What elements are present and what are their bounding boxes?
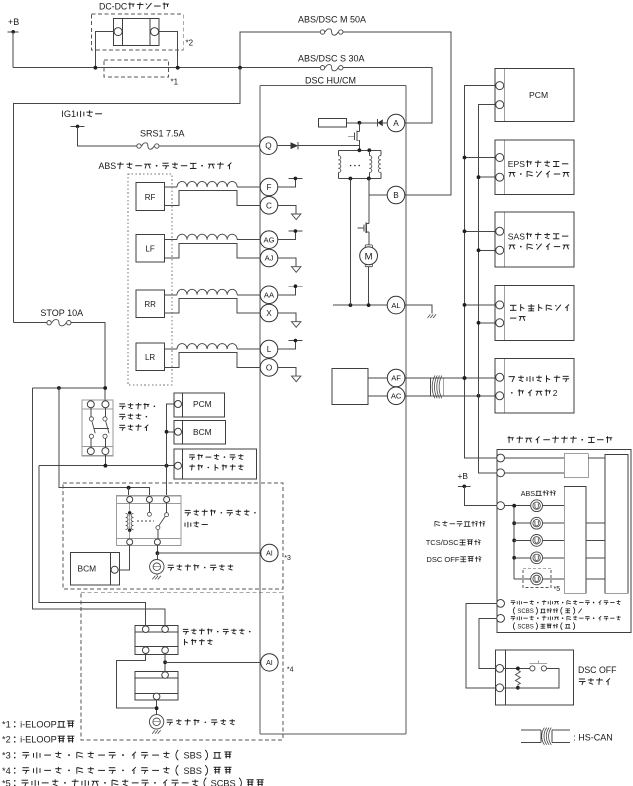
svg-text:LR: LR bbox=[145, 353, 155, 362]
svg-text:DSC HU/CM: DSC HU/CM bbox=[305, 75, 356, 85]
svg-text:*4: *4 bbox=[287, 667, 294, 674]
svg-text:C: C bbox=[266, 201, 272, 210]
svg-text:*2: *2 bbox=[2, 735, 11, 745]
svg-text:i-ELOOP: i-ELOOP bbox=[20, 720, 57, 730]
svg-text:AC: AC bbox=[391, 392, 402, 401]
svg-text:DC-DC: DC-DC bbox=[99, 1, 127, 11]
svg-text:EPS: EPS bbox=[508, 159, 525, 169]
svg-text:+B: +B bbox=[458, 471, 469, 481]
svg-text:2: 2 bbox=[553, 388, 558, 398]
svg-text:DSC OFF: DSC OFF bbox=[426, 555, 459, 564]
svg-text:AI: AI bbox=[266, 549, 273, 558]
svg-text:i-ELOOP: i-ELOOP bbox=[20, 735, 57, 745]
svg-text:*1: *1 bbox=[2, 720, 11, 730]
svg-text:SCBS: SCBS bbox=[517, 609, 533, 615]
svg-text:BCM: BCM bbox=[193, 427, 212, 437]
svg-text:X: X bbox=[266, 309, 272, 318]
svg-text:A: A bbox=[393, 119, 399, 128]
svg-text:RF: RF bbox=[145, 193, 156, 202]
svg-text:AL: AL bbox=[391, 301, 400, 310]
svg-text:AJ: AJ bbox=[265, 254, 274, 263]
svg-text:*2: *2 bbox=[186, 38, 194, 47]
svg-text:ABS: ABS bbox=[99, 161, 117, 171]
svg-text:STOP 10A: STOP 10A bbox=[40, 308, 83, 318]
svg-text:AF: AF bbox=[391, 374, 401, 383]
svg-text:AI: AI bbox=[266, 658, 273, 667]
svg-text:M: M bbox=[365, 251, 373, 262]
svg-text:Q: Q bbox=[265, 142, 271, 151]
svg-text:ABS: ABS bbox=[521, 490, 536, 498]
svg-text:BCM: BCM bbox=[78, 564, 97, 574]
svg-text:SAS: SAS bbox=[508, 231, 525, 241]
svg-text:SBS: SBS bbox=[183, 751, 201, 761]
svg-text:*5: *5 bbox=[2, 778, 11, 786]
svg-text:*3: *3 bbox=[284, 555, 291, 562]
svg-text:SRS1 7.5A: SRS1 7.5A bbox=[140, 128, 185, 138]
svg-text:*3: *3 bbox=[2, 751, 11, 761]
svg-text:ABS/DSC S 30A: ABS/DSC S 30A bbox=[298, 54, 365, 64]
svg-text:RR: RR bbox=[144, 300, 156, 309]
svg-text:+B: +B bbox=[8, 17, 19, 27]
svg-text:B: B bbox=[393, 191, 399, 200]
svg-text:SBS: SBS bbox=[183, 766, 201, 776]
svg-text:: HS-CAN: : HS-CAN bbox=[573, 732, 613, 742]
svg-text:LF: LF bbox=[145, 245, 154, 254]
svg-text:PCM: PCM bbox=[529, 90, 548, 100]
svg-text:L: L bbox=[267, 345, 272, 354]
svg-text:*5: *5 bbox=[554, 586, 561, 593]
svg-text:F: F bbox=[266, 183, 271, 192]
svg-text:PCM: PCM bbox=[193, 399, 212, 409]
svg-text:IG1: IG1 bbox=[61, 109, 76, 119]
svg-text:AG: AG bbox=[264, 235, 275, 244]
svg-text:ABS/DSC M 50A: ABS/DSC M 50A bbox=[298, 14, 366, 24]
svg-text:*1: *1 bbox=[171, 78, 179, 87]
svg-text:O: O bbox=[266, 363, 272, 372]
svg-text:AA: AA bbox=[264, 291, 275, 300]
svg-text:SCBS: SCBS bbox=[517, 624, 533, 630]
svg-text:TCS/DSC: TCS/DSC bbox=[426, 538, 460, 547]
svg-text:DSC OFF: DSC OFF bbox=[578, 665, 616, 675]
svg-text:*4: *4 bbox=[2, 766, 11, 776]
svg-text:SCBS: SCBS bbox=[211, 778, 236, 786]
